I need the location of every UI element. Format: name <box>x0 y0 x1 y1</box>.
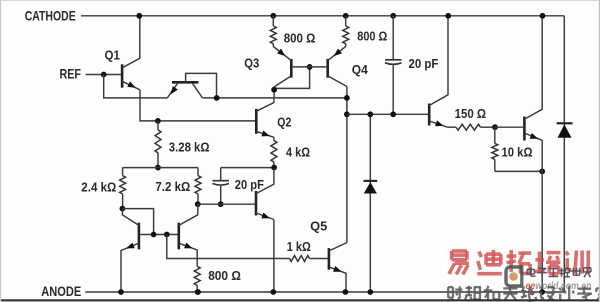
junction Q3-Q4 base node <box>307 64 313 70</box>
wire right edge branch (cathode to anode via D2) <box>563 16 565 292</box>
wire Q6 base <box>198 203 255 205</box>
wire Q9 emitter to anode <box>541 140 543 292</box>
junction Q6 emitter at rail <box>270 289 276 295</box>
diode D1 <box>364 114 378 292</box>
transistor Q1 label <box>105 47 120 62</box>
wire mirror base tie <box>122 209 153 235</box>
watermark red char 5 <box>566 251 589 274</box>
transistor Q7 (diode-connected pnp) <box>167 73 216 98</box>
wire cathode top rail <box>81 15 564 17</box>
svg-text:150 Ω: 150 Ω <box>455 106 487 121</box>
watermark grey bottom char 2 <box>465 286 481 301</box>
junction Q7 collector-base tie <box>214 95 220 101</box>
wire Q1 emitter to Q2 base <box>140 90 256 121</box>
resistor R10 1 kohm <box>290 256 328 262</box>
resistor R9 10 kohm <box>492 127 498 171</box>
watermark red char 1 <box>449 251 469 275</box>
resistor R4 value label <box>81 179 116 194</box>
junction C2 bottom <box>218 201 224 207</box>
node ANODE label <box>41 284 81 299</box>
watermark red char 4 <box>535 252 561 274</box>
watermark grey bottom char 7 <box>559 286 573 301</box>
transistor Q2 <box>256 98 274 137</box>
resistor R6 4 kohm <box>271 137 277 167</box>
wire C2 top to R6 bottom node <box>221 167 274 169</box>
resistor R9 value label <box>502 145 533 160</box>
transistor Q5 label <box>310 219 327 234</box>
resistor R8 150 ohm <box>447 124 495 130</box>
svg-text:ANODE: ANODE <box>41 284 81 299</box>
svg-text:Q5: Q5 <box>310 219 327 234</box>
svg-text:Q2: Q2 <box>277 115 291 130</box>
transistor Q3 label <box>244 56 259 71</box>
wire anode bottom rail <box>85 291 564 293</box>
watermark logo mark <box>506 265 522 288</box>
wire mirror base line <box>140 234 177 236</box>
junction Q3 collector node <box>271 87 277 93</box>
watermark url <box>526 280 592 292</box>
svg-text:Q4: Q4 <box>352 62 369 77</box>
transistor Qb (mirror right) <box>179 204 198 266</box>
watermark grey bottom char 6 <box>541 287 555 301</box>
svg-text:800 Ω: 800 Ω <box>284 30 316 45</box>
wire R9 bottom to Q9 emitter <box>495 170 542 172</box>
svg-text:2.4 kΩ: 2.4 kΩ <box>81 179 116 194</box>
resistor R5 7.2 kohm <box>195 168 201 205</box>
wire REF down-right to Q7 emitter <box>104 75 168 98</box>
svg-text:10 kΩ: 10 kΩ <box>502 145 533 160</box>
resistor R3 3.28 kohm <box>155 121 161 168</box>
resistor R1 value label <box>284 30 316 45</box>
svg-text:7.2 kΩ: 7.2 kΩ <box>155 179 190 194</box>
junction top rail to Q1 <box>136 13 142 19</box>
diode D2 <box>557 123 573 138</box>
junction Q9 emitter node <box>539 169 545 175</box>
svg-text:4 kΩ: 4 kΩ <box>286 145 310 160</box>
watermark grey bottom char 3 <box>484 286 500 301</box>
svg-text:20 pF: 20 pF <box>235 177 264 192</box>
junction compensation node <box>344 111 350 117</box>
watermark grey logo char 6 <box>584 268 591 278</box>
junction R6 bottom node <box>271 165 277 171</box>
resistor R10 value label <box>287 239 311 254</box>
watermark grey logo char 3 <box>549 269 559 277</box>
junction Q2 base node <box>155 118 161 124</box>
watermark red char 3 <box>507 250 531 274</box>
wire internal node <box>347 113 429 115</box>
svg-text:800 Ω: 800 Ω <box>357 28 387 43</box>
node CATHODE label <box>25 9 76 24</box>
svg-text:1 kΩ: 1 kΩ <box>287 239 311 254</box>
junction R7 bottom at rail <box>195 289 201 295</box>
transistor Q1 <box>122 16 140 90</box>
junction mirror base right <box>164 232 170 238</box>
svg-text:Q3: Q3 <box>244 56 259 71</box>
junction D1 top <box>367 111 373 117</box>
transistor Q5 <box>329 243 347 292</box>
transistor Q3 <box>273 47 326 87</box>
transistor Qa (mirror left) <box>121 209 139 292</box>
resistor R3 value label <box>169 140 210 155</box>
wire mirror base to R10 <box>167 235 290 259</box>
capacitor C1 20 pF <box>385 16 402 115</box>
wire REF lead <box>86 74 122 76</box>
junction mirror base left <box>151 232 157 238</box>
transistor Q4 label <box>352 62 369 77</box>
resistor R5 value label <box>155 179 190 194</box>
svg-text:eeworld.com.cn: eeworld.com.cn <box>526 280 592 292</box>
junction Q9 base node <box>492 124 498 130</box>
wire Q9 base <box>495 126 523 128</box>
watermark grey logo char 2 <box>537 268 547 277</box>
resistor R1 800 ohm <box>270 16 276 47</box>
junction Qa emitter at rail <box>118 289 124 295</box>
resistor R8 value label <box>455 106 487 121</box>
junction REF node <box>101 72 107 78</box>
watermark grey bottom char 5 <box>521 286 537 301</box>
watermark grey bottom char 1 <box>447 286 463 300</box>
wire Q4 collector down to Q5 collector <box>346 87 348 243</box>
capacitor C2 value label <box>235 177 264 192</box>
watermark grey logo char 4 <box>560 268 570 277</box>
transistor Q4 <box>328 47 347 87</box>
node REF label <box>60 67 82 82</box>
resistor R2 800 ohm <box>343 16 349 47</box>
svg-text:800 Ω: 800 Ω <box>208 268 241 283</box>
capacitor C2 20 pF <box>213 168 230 205</box>
junction Q9 emitter at rail <box>539 289 545 295</box>
capacitor C1 value label <box>409 56 439 71</box>
watermark grey bottom char 9 <box>596 286 600 301</box>
svg-text:REF: REF <box>60 67 82 82</box>
transistor Q8 (pre-driver) <box>429 16 448 127</box>
junction Q5 emitter at rail <box>343 289 349 295</box>
svg-text:Q1: Q1 <box>105 47 120 62</box>
resistor R7 value label <box>208 268 241 283</box>
wire Q6 emitter to anode <box>273 220 275 293</box>
wire Q7 collector to mirror node <box>202 97 347 99</box>
junction R4 bottom <box>120 206 126 212</box>
transistor Q9 (output) <box>524 16 542 141</box>
junction C1 bottom <box>390 111 396 117</box>
transistor Q6 <box>256 168 274 220</box>
svg-text:20 pF: 20 pF <box>409 56 439 71</box>
transistor Q2 label <box>277 115 291 130</box>
watermark grey bottom char 4 <box>503 286 517 301</box>
resistor R2 value label <box>357 28 387 43</box>
resistor R4 2.4 kohm <box>120 168 126 209</box>
junction top rail to R2 <box>343 13 349 19</box>
junction top rail to C1 <box>390 13 396 19</box>
watermark grey bottom char 8 <box>577 286 592 301</box>
watermark grey logo char 5 <box>571 268 581 275</box>
junction mirror output node <box>344 95 350 101</box>
junction top rail to Q9 <box>540 13 546 19</box>
junction R5 bottom <box>195 201 201 207</box>
junction D1 anode at rail <box>367 289 373 295</box>
wire divider top <box>123 167 198 169</box>
resistor R6 value label <box>286 145 310 160</box>
junction anode rail <box>195 289 201 295</box>
svg-text:CATHODE: CATHODE <box>25 9 76 24</box>
junction top rail to Q8 <box>445 13 451 19</box>
junction top rail to R1 <box>270 13 276 19</box>
resistor R7 800 ohm <box>194 266 200 292</box>
watermark grey logo char 1 <box>527 268 535 277</box>
wire Q3 collector tie <box>274 67 310 98</box>
watermark red char 2 <box>477 250 502 274</box>
svg-text:3.28 kΩ: 3.28 kΩ <box>169 140 210 155</box>
junction R3 bottom <box>155 165 161 171</box>
